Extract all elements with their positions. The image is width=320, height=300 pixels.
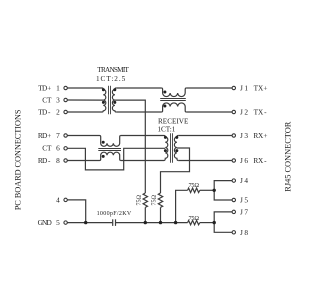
junction node J7-J8 (213, 221, 216, 224)
resistor R2 75ohm vertical (158, 193, 162, 207)
pin terminal J2 (232, 110, 235, 113)
polarity dot T1 secondary top (113, 88, 116, 91)
polarity dot choke L2 top (163, 91, 166, 94)
choke L1 bottom winding (100, 152, 121, 160)
resistor R4 75ohm horizontal in ground bus (188, 220, 200, 224)
pin terminal J5 (232, 198, 235, 201)
junction node J4-J5 (213, 189, 216, 192)
choke L2 top winding (161, 88, 186, 97)
pin terminal 7 (64, 134, 67, 137)
polarity dot T2 left bottom winding (164, 149, 167, 152)
polarity dot T1 primary top (102, 88, 105, 91)
resistor R1 75ohm vertical (143, 193, 147, 207)
pin terminal J1 (232, 86, 235, 89)
wire T1 secondary bottom to choke L2 (116, 111, 161, 113)
svg-text:J3 RX+: J3 RX+ (240, 131, 267, 140)
svg-text:RD- 8: RD- 8 (38, 156, 60, 165)
wire R4 to J7 J8 node (200, 222, 214, 224)
polarity dot choke L1 top (102, 141, 105, 144)
wire T2 right center tap to R2 (161, 148, 190, 193)
pin terminal J8 (232, 231, 235, 234)
wire choke L2 to J1 (186, 87, 232, 89)
transformer T2 core (170, 133, 172, 163)
junction node R2-ground (159, 221, 162, 224)
svg-text:TRANSMIT: TRANSMIT (97, 66, 129, 74)
svg-text:CT 6: CT 6 (42, 144, 60, 153)
wire GND pin5 to capacitor C1 (67, 222, 112, 224)
svg-text:1CT:2.5: 1CT:2.5 (96, 75, 126, 83)
choke L1 top winding (100, 136, 121, 147)
polarity dot choke L2 bottom (163, 105, 166, 108)
svg-text:GND 5: GND 5 (38, 218, 61, 227)
pin terminal J7 (232, 210, 235, 213)
pin terminal 6 (64, 147, 67, 150)
wire RD- pin8 to choke L1 (67, 160, 99, 162)
wire TD+ pin1 to T1 (67, 87, 102, 89)
svg-text:75Ω: 75Ω (188, 215, 199, 222)
wire R1 bottom to ground bus (144, 207, 146, 222)
wire TD- pin2 to T1 (67, 111, 102, 113)
wire choke L1 to T2 top (121, 135, 164, 137)
svg-text:J6 RX-: J6 RX- (240, 156, 267, 165)
svg-text:TD- 2: TD- 2 (38, 107, 60, 116)
wire CT pin3 to T1 center tap (67, 99, 103, 101)
wire node to J7 and J8 (214, 212, 232, 232)
transformer T2 RECEIVE left winding (164, 136, 168, 161)
wire capacitor C1 to ground bus (116, 222, 188, 224)
svg-text:CT 3: CT 3 (42, 95, 60, 104)
wire node to J4 and J5 (214, 181, 232, 200)
transformer T1 TRANSMIT left winding (102, 88, 106, 112)
pin terminal 1 (64, 86, 67, 89)
pin terminal 3 (64, 98, 67, 101)
wire R3 to J4 J5 node (200, 189, 214, 191)
choke L2 bottom winding (161, 103, 186, 112)
pin terminal 4 (64, 198, 67, 201)
polarity dot T2 right top (175, 136, 178, 139)
svg-text:J2 TX-: J2 TX- (240, 108, 267, 117)
svg-text:J8: J8 (240, 228, 248, 237)
pin terminal 2 (64, 110, 67, 113)
polarity dot T2 left top (164, 136, 167, 139)
svg-text:RJ45 CONNECTOR: RJ45 CONNECTOR (284, 121, 293, 192)
polarity dot choke L1 bottom (102, 155, 105, 158)
svg-text:J1 TX+: J1 TX+ (240, 84, 267, 93)
transformer T2 right winding (174, 136, 178, 161)
junction node pin4-GND (84, 221, 87, 224)
choke L2 core (160, 98, 186, 100)
transformer T1 right winding (112, 88, 116, 112)
resistor R3 75ohm horizontal (188, 188, 200, 192)
wire CT pin6 detour under choke to T2 center tap (67, 148, 165, 170)
svg-text:J5: J5 (240, 196, 248, 205)
wire choke L1 to T2 bottom (121, 160, 164, 162)
wire T2 to J6 (178, 160, 232, 162)
svg-text:75Ω: 75Ω (151, 195, 158, 206)
junction node R1-ground (144, 221, 147, 224)
junction node R3-ground (174, 221, 177, 224)
pin terminal 8 (64, 159, 67, 162)
polarity dot T1 primary bottom winding (102, 101, 105, 104)
svg-text:1000pF/2KV: 1000pF/2KV (97, 211, 132, 217)
polarity dot T2 right bottom winding (175, 149, 178, 152)
pin terminal J4 (232, 179, 235, 182)
transformer T1 core (108, 86, 110, 115)
wire T1 secondary center tap to R1 (115, 100, 145, 193)
wire T2 to J3 (178, 135, 232, 137)
wire R3 branch from ground bus (176, 190, 188, 222)
svg-text:75Ω: 75Ω (188, 182, 199, 189)
pin terminal 5 GND (64, 221, 67, 224)
svg-text:1CT:1: 1CT:1 (158, 126, 176, 134)
svg-text:RECEIVE: RECEIVE (158, 117, 189, 125)
choke L1 core (98, 148, 121, 150)
capacitor C1 1000pF/2KV plates (112, 219, 114, 226)
pin terminal J6 (232, 159, 235, 162)
svg-text:TD+ 1: TD+ 1 (38, 83, 60, 92)
svg-text:75Ω: 75Ω (135, 195, 142, 206)
wire R2 bottom to ground bus (160, 207, 162, 222)
wire RD+ pin7 to choke L1 (67, 135, 99, 137)
svg-text:PC BOARD CONNECTIONS: PC BOARD CONNECTIONS (14, 109, 23, 210)
wire pin4 to ground bus (67, 200, 85, 223)
wire T1 secondary top to choke L2 (116, 87, 161, 89)
svg-text:J7: J7 (240, 207, 248, 216)
polarity dot T1 secondary bottom winding (113, 101, 116, 104)
svg-text:4: 4 (56, 195, 60, 204)
wire choke L2 to J2 (186, 111, 232, 113)
pin terminal J3 (232, 134, 235, 137)
svg-text:J4: J4 (240, 176, 248, 185)
svg-text:RD+ 7: RD+ 7 (38, 131, 60, 140)
